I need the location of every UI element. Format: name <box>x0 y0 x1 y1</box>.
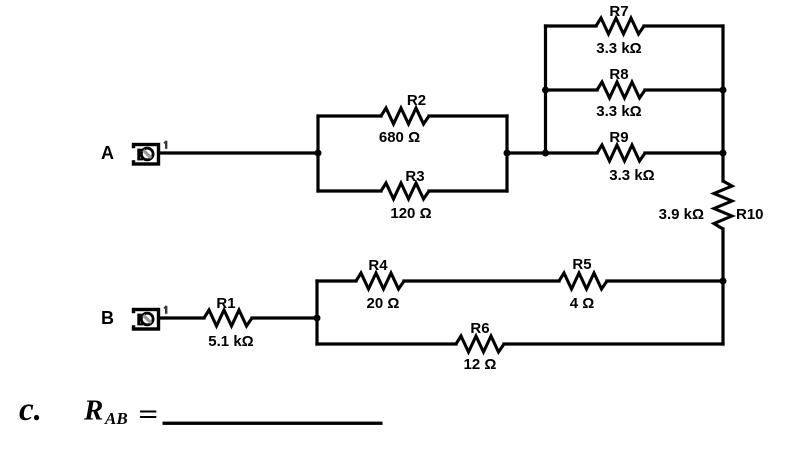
svg-text:3.9 kΩ: 3.9 kΩ <box>659 206 704 223</box>
svg-text:12 Ω: 12 Ω <box>464 356 497 373</box>
svg-text:5.1 kΩ: 5.1 kΩ <box>208 333 253 350</box>
svg-text:R8: R8 <box>609 66 628 83</box>
svg-text:3.3 kΩ: 3.3 kΩ <box>596 40 641 57</box>
svg-text:R7: R7 <box>609 3 628 20</box>
svg-text:R9: R9 <box>609 129 628 146</box>
svg-text:=: = <box>138 399 158 431</box>
svg-text:120 Ω: 120 Ω <box>390 205 431 222</box>
svg-text:20 Ω: 20 Ω <box>367 295 400 312</box>
svg-text:R: R <box>83 395 103 427</box>
svg-text:680 Ω: 680 Ω <box>379 129 420 146</box>
svg-text:AB: AB <box>104 409 128 428</box>
svg-text:R4: R4 <box>368 257 388 274</box>
svg-text:3.3 kΩ: 3.3 kΩ <box>609 167 654 184</box>
svg-text:R2: R2 <box>407 92 426 109</box>
svg-text:R10: R10 <box>736 206 764 223</box>
svg-text:R6: R6 <box>470 320 489 337</box>
svg-text:R1: R1 <box>216 295 235 312</box>
svg-text:R3: R3 <box>405 168 424 185</box>
svg-text:c.: c. <box>19 392 42 428</box>
svg-text:R5: R5 <box>572 256 591 273</box>
svg-text:3.3 kΩ: 3.3 kΩ <box>596 103 641 120</box>
svg-text:A: A <box>101 143 114 163</box>
svg-text:B: B <box>101 308 114 328</box>
svg-text:4 Ω: 4 Ω <box>570 295 595 312</box>
